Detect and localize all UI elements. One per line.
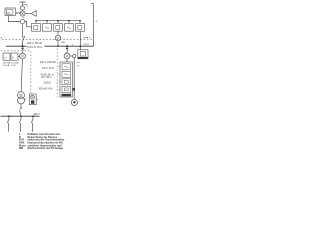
horn triangle [31,11,36,17]
tap 2 junction [20,115,22,117]
wire pv meter to bus [57,41,59,46]
svg-text:TN-C-S 70 m: TN-C-S 70 m [27,45,42,49]
blade left drop [22,50,23,53]
inverter box 4 [65,23,74,31]
meter circle M1 [20,53,26,59]
svg-text:TN-C: 70 m: TN-C: 70 m [42,68,54,70]
stub to horn [25,13,31,15]
tap 2 stub [20,116,22,119]
svg-text:0,3 Ω: 0,3 Ω [11,65,16,67]
manifold junction 3 [57,20,59,22]
svg-text:4×150 SE, m: 4×150 SE, m [41,73,54,76]
svg-text:Fu: Fu [4,57,6,59]
inverter box 3 [54,23,63,31]
wire box5 down to SLS box [79,31,81,50]
svg-text:100 kVA: 100 kVA [11,61,19,64]
wire box B to M1 [18,56,20,58]
tap 3 stub [32,116,34,119]
pv manifold wire [36,20,80,22]
meter circle Z1 [20,6,24,10]
street cabinet box [29,94,36,105]
house connection box A [3,53,10,60]
motor label [73,101,75,103]
cabinet meter circle [31,95,35,99]
cabinet dark square [31,100,34,103]
SLS box [78,50,88,59]
svg-text:WR: WR [19,147,23,150]
module 4 [62,86,71,92]
manifold junction 4 [68,20,70,22]
house connection box B [11,53,18,60]
svg-text:NYY 35 m: NYY 35 m [41,77,52,79]
svg-text:3×25 A: 3×25 A [44,81,52,84]
converter cabinet box [60,62,72,97]
switch blade to bus2 [19,110,21,116]
tick on feeder [23,17,25,19]
svg-text:200 kVA, 6 %: 200 kVA, 6 % [39,88,53,91]
arrow label 3~ [83,37,87,39]
small meter circle [73,54,76,57]
lamp circle with X [20,11,25,16]
module 2 [62,71,71,77]
tap 2 wire [20,123,22,132]
svg-text:EHZ: EHZ [16,12,21,15]
wire box3 down to pv meter [57,31,59,35]
svg-text:3×35 A: 3×35 A [3,64,10,67]
wire switch to bus [22,41,24,46]
junction box5-bus [79,45,81,47]
tick cabinet to motor wire [73,88,75,91]
tap 1 wire [8,123,10,132]
tap 1 blade [7,119,9,123]
switch terminal dot [24,36,25,37]
cabinet left stub 4 [58,88,60,90]
tap 3 blade [31,119,33,123]
white mask under line 2 [27,45,45,49]
svg-text:0,4 kV: 0,4 kV [83,44,89,46]
tap 2 blade [19,119,21,123]
manifold junction 1 [35,20,37,22]
fuse stub at top [23,5,28,7]
inverter box 1 [32,23,41,31]
dashed vertical mid [56,49,58,98]
wire transformer down [20,104,22,108]
wire top T-bar of grid feeder [20,2,26,6]
cabinet left stub 2 [58,73,60,75]
manifold stub 3 [57,21,59,24]
stub M2 into converter box [66,59,68,62]
junction pv-bus [57,45,59,47]
feeder arrow right [66,48,69,51]
tap 1 stub [8,116,10,119]
junction right drop [66,45,68,47]
inverter box 5 [76,23,85,31]
transformer lower winding [18,97,25,104]
svg-text:kWh: kWh [61,42,65,44]
module 3 [62,79,71,85]
tap 3 junction [32,115,34,117]
blade right drop [67,50,68,53]
meter box label kWh [6,10,13,15]
meter circle M2 [64,53,70,59]
cabinet tick [36,99,38,101]
tick on bus near SLS [71,44,73,46]
dashed boundary line 1 [2,38,93,40]
boundary switch blade [23,37,25,41]
tap 1 junction [8,115,10,117]
manifold junction 2 [46,20,48,22]
pv meter circle [55,35,61,41]
svg-text:FL: FL [12,57,15,59]
cabinet left stub 1 [58,66,60,68]
kWh meter box [5,8,15,16]
svg-text:6,8: 6,8 [77,62,81,64]
transformer upper winding [18,92,25,99]
manifold stub 2 [46,21,48,24]
manifold junction 5 [79,20,81,22]
dashed boundary 2 L-shape [1,51,31,94]
svg-text:400 V: 400 V [34,114,40,116]
right feeder riser [91,4,93,47]
switch terminal dot [20,107,21,108]
motor circle [71,99,77,105]
manifold stub 4 [68,21,70,24]
meter circle Z2 [20,19,24,23]
manifold stub 5 [79,21,81,24]
svg-text:B: B [24,99,26,101]
wire Z2 down to boundary switch [22,24,24,38]
svg-text:100 kVA: 100 kVA [3,61,11,64]
inverter box 2 [43,23,52,31]
module 1 [62,64,71,70]
svg-text:400 A, 100 kVA: 400 A, 100 kVA [40,61,56,64]
svg-text:400 V, 50 Hz: 400 V, 50 Hz [27,41,42,45]
svg-text:3∼: 3∼ [77,65,80,67]
wire between circles [22,9,24,12]
svg-text:Wechselrichter der PV-Anlage: Wechselrichter der PV-Anlage [28,147,64,150]
wire small meter down to motor [73,58,75,100]
svg-text:×6: ×6 [95,20,97,23]
bus 2 [1,115,40,117]
tap 3 wire [32,123,34,132]
wire M2 to small meter [70,55,73,57]
feeder arrow left [21,48,24,51]
cabinet left stub 3 [58,81,60,83]
junction left drop [22,45,24,47]
SLS dark bottom bar [78,57,88,59]
wire meter drop to Z2 [8,16,20,22]
manifold stub 1 [35,21,37,24]
wire M1 down to transformer [21,59,22,92]
cabinet dark bottom bar [62,94,72,97]
main bus [6,45,94,47]
PV feed wire from Z2 to inverter row [25,22,32,27]
